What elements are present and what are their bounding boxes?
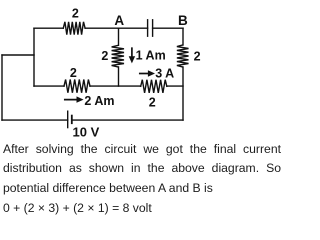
resistor R2 (center vertical, value 2) xyxy=(112,45,124,67)
resistor R1 (top, value 2) xyxy=(63,22,85,35)
wire connector to inner left rail xyxy=(2,54,34,56)
wire right rail from node B down to resistor R4 xyxy=(182,28,184,45)
resistor R4 (right vertical, value 2) xyxy=(177,45,189,67)
wire middle between R5 and right rail xyxy=(167,85,183,87)
svg-text:1 Am: 1 Am xyxy=(136,48,166,62)
svg-text:2: 2 xyxy=(149,96,156,110)
wire bottom from battery to bottom-left corner xyxy=(2,119,68,121)
wire top-left horizontal segment xyxy=(34,27,63,29)
wire middle between R3 and node under A xyxy=(90,85,141,87)
wire top between R1 and node A xyxy=(85,27,118,29)
equation line xyxy=(3,199,281,219)
resistor R3 (middle left, value 2) xyxy=(64,80,90,93)
wire bottom from right corner to battery positive plate xyxy=(72,119,183,121)
current arrow 2 Am through R3 xyxy=(65,99,81,101)
svg-text:2: 2 xyxy=(194,49,201,63)
svg-text:2: 2 xyxy=(70,66,77,80)
wire inner left rail vertical xyxy=(33,28,35,86)
wire middle-left segment xyxy=(34,85,64,87)
wire top between capacitor C1 and node B xyxy=(153,27,183,29)
battery V1 long plate xyxy=(67,111,69,127)
wire vertical from node A down to resistor R2 xyxy=(118,28,120,45)
wire from R2 down to middle wire junction xyxy=(118,67,120,86)
wire top between node A and capacitor C1 xyxy=(119,27,148,29)
svg-text:2: 2 xyxy=(72,7,79,21)
current arrow 3 A through R5 xyxy=(140,73,152,75)
wire right rail from R4 down to bottom-right corner xyxy=(182,67,184,120)
svg-text:10 V: 10 V xyxy=(73,125,100,140)
battery V1 short plate xyxy=(71,116,73,124)
paragraph text xyxy=(3,140,281,199)
capacitor C1 left plate xyxy=(147,20,149,36)
svg-text:2 Am: 2 Am xyxy=(84,94,114,108)
svg-text:3 A: 3 A xyxy=(155,67,174,81)
resistor R5 (middle right, value 2) xyxy=(141,80,167,93)
wire far-left rail up to connector xyxy=(1,55,3,120)
svg-text:A: A xyxy=(114,13,124,28)
svg-text:2: 2 xyxy=(101,49,108,63)
current arrow 1 Am through R2 xyxy=(131,48,133,60)
capacitor C1 right plate xyxy=(152,20,154,36)
svg-text:B: B xyxy=(178,13,188,28)
